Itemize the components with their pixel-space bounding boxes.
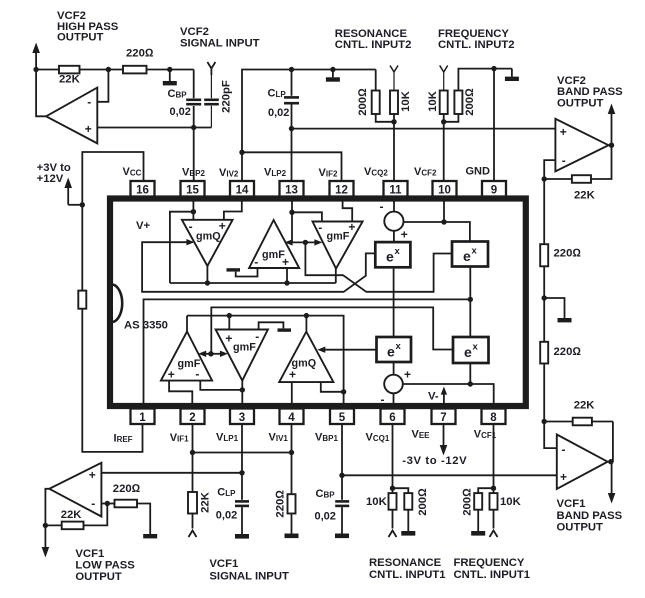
wire A2 feedback: [591, 145, 612, 179]
svg-text:220Ω: 220Ω: [554, 346, 582, 358]
pin boxes bottom row 1..8: [131, 409, 506, 425]
svg-text:13: 13: [285, 185, 298, 197]
svg-text:16: 16: [136, 185, 149, 197]
ground bar top-left: [163, 70, 177, 86]
svg-text:+: +: [560, 125, 567, 139]
node LP2 branch: [303, 240, 308, 245]
resistor 10K freq2: [427, 90, 448, 121]
svg-text:-3V to -12V: -3V to -12V: [402, 455, 467, 467]
wire pin8 chain: [493, 424, 495, 493]
svg-text:CLP: CLP: [217, 487, 236, 499]
svg-text:+: +: [404, 368, 411, 382]
wire pin2 chain: [192, 424, 194, 492]
node pin3 VLP1 internal: [240, 387, 245, 392]
node gmQ bottom output: [304, 313, 309, 318]
svg-text:+: +: [225, 332, 232, 346]
svg-text:200Ω: 200Ω: [357, 88, 369, 116]
node Hb to gmF plus: [227, 313, 232, 318]
arrow VEE supply: [440, 424, 448, 456]
input terminal Y VCF1 signal: [189, 531, 197, 538]
node A2 output: [609, 143, 614, 148]
svg-text:200Ω: 200Ω: [462, 488, 474, 516]
svg-text:-: -: [255, 330, 259, 344]
node link at pin2: [190, 450, 195, 455]
wire A4 plus input LP1 line: [101, 472, 242, 474]
wire 22K to A2 minus: [544, 178, 572, 180]
svg-text:OUTPUT: OUTPUT: [557, 97, 604, 109]
resistor 200R freq2: [444, 69, 512, 122]
wire gmF bottom-left plus to pin2: [169, 381, 192, 406]
svg-text:CNTL. INPUT2: CNTL. INPUT2: [438, 39, 515, 51]
capacitor CBP 0,02 bottom: [315, 488, 350, 522]
svg-text:LOW PASS: LOW PASS: [75, 560, 135, 572]
node BP1 at pin5: [339, 473, 344, 478]
svg-text:CLP: CLP: [268, 88, 287, 100]
wire IREF to pin1: [82, 309, 142, 452]
resistor 220R A4: [113, 483, 150, 534]
node pin15 junction: [191, 209, 196, 214]
wire top-left feedback rail: [36, 69, 194, 71]
wire current source bottom to pin6: [393, 393, 395, 406]
op-amp A2 VCF2 band pass: [555, 119, 608, 172]
resistor 220R top-left: [123, 66, 147, 74]
resistor IREF (unlabeled): [78, 291, 86, 309]
svg-text:VIF2: VIF2: [319, 167, 338, 179]
node ex2-ex4 on bus3: [468, 297, 473, 302]
resistor 200R res1: [393, 488, 429, 531]
wire pin14 to gmQ plus: [224, 198, 242, 220]
wire pin11 to current source top: [393, 198, 395, 212]
op-amp A4 VCF1 low pass: [49, 463, 101, 517]
wire gmQ bottom output stub: [305, 316, 307, 332]
svg-text:+12V: +12V: [37, 173, 64, 185]
svg-text:x: x: [472, 246, 478, 257]
wire Hb to gmF bottom-center plus: [228, 316, 230, 330]
exponential converter ex3: [377, 337, 412, 362]
svg-text:RESONANCE: RESONANCE: [369, 557, 442, 569]
svg-text:4: 4: [288, 412, 295, 424]
wire pin9 to gnd: [493, 69, 495, 181]
svg-text:CNTL. INPUT2: CNTL. INPUT2: [335, 39, 412, 51]
node mid ground: [542, 295, 547, 300]
wire A2 minus input: [544, 160, 555, 179]
pin boxes top row 16..9: [131, 181, 507, 197]
wire V- rail: [403, 384, 494, 406]
wire arrow into gmF bottom-left input: [205, 353, 211, 355]
node frequency1 split: [491, 486, 496, 491]
wire ex2 bottom to ex4 top: [469, 267, 471, 338]
text +3V to +12V: [37, 162, 71, 185]
IC pin-1 notch: [113, 285, 122, 323]
svg-text:200Ω: 200Ω: [417, 488, 429, 516]
svg-text:VCF2: VCF2: [414, 166, 437, 178]
resistor 10K freq1: [490, 493, 522, 528]
wire pin10 to current source right: [403, 221, 444, 223]
text VCF1 LOW PASS OUTPUT: [75, 548, 135, 583]
svg-text:-: -: [87, 95, 91, 109]
wire pin10 to ex2 top: [444, 222, 470, 242]
wire to pin11: [393, 122, 395, 181]
svg-text:VLP1: VLP1: [216, 432, 239, 444]
resistor 220R VIV1: [275, 490, 296, 534]
svg-text:0,02: 0,02: [268, 107, 289, 119]
node BP2 external: [191, 125, 196, 130]
svg-text:220Ω: 220Ω: [126, 47, 154, 59]
arrow VCF2 high pass output: [35, 52, 37, 70]
text VCF1 BAND PASS OUTPUT: [557, 498, 623, 534]
wire VIV2 top rail: [242, 70, 376, 153]
node CLP top: [289, 67, 294, 72]
svg-text:-: -: [381, 393, 385, 407]
wire bus2 with arrow into gmQ input: [142, 242, 375, 292]
node A1 output: [33, 67, 38, 72]
ground bar res1: [401, 531, 415, 536]
svg-text:+: +: [168, 368, 175, 382]
ground bar freq1: [471, 531, 485, 536]
arrow +12V supply: [64, 178, 82, 205]
wire pin6 chain: [392, 424, 394, 493]
wire BP1 line to A3 plus: [342, 474, 557, 476]
wire pin4 chain: [291, 424, 293, 494]
arrow VCF1 low pass output: [42, 525, 50, 557]
svg-text:VCF1: VCF1: [557, 498, 586, 510]
exponential converter ex2: [452, 242, 488, 267]
ground bar A4: [143, 534, 157, 538]
svg-text:+: +: [560, 470, 567, 484]
svg-text:gmQ: gmQ: [196, 231, 221, 243]
op-amp gmF bottom-left (U1 internal): [161, 332, 212, 382]
node ground tap: [167, 67, 172, 72]
node ground tap 2: [330, 67, 335, 72]
capacitor CLP 0,02 top: [268, 88, 300, 120]
svg-text:+: +: [348, 220, 355, 234]
svg-text:10K: 10K: [400, 90, 412, 112]
wire ex3 bottom to current source: [393, 362, 395, 375]
node VIV2 link: [239, 150, 244, 155]
svg-text:-: -: [380, 200, 384, 214]
svg-text:12: 12: [335, 185, 348, 197]
wire gmF top-right output stub: [335, 269, 337, 283]
resistor 22K input VCF1: [188, 491, 211, 528]
svg-text:5: 5: [339, 412, 346, 424]
node pin9 gnd: [491, 66, 496, 71]
input terminal Y resonance1: [389, 531, 397, 538]
node pin13 junction: [289, 210, 294, 215]
wire VIV2 to VIF2 link: [242, 152, 342, 181]
resistor 200R res2: [357, 70, 394, 122]
op-amp gmQ top (U1 internal): [182, 219, 233, 266]
ground bar CBP: [335, 534, 349, 539]
svg-text:VIF1: VIF1: [170, 432, 189, 444]
resistor 22K feedback A1: [59, 66, 80, 74]
op-amp gmF bottom-center (U1 internal): [216, 330, 268, 381]
wire pin5 chain: [341, 424, 343, 500]
wire ex1 bottom to ex3 top: [393, 267, 395, 337]
svg-text:VEE: VEE: [412, 429, 431, 441]
exponential converter ex4: [453, 337, 489, 363]
ground bar top-right: [505, 69, 519, 81]
wire gmF top-center plus stub: [286, 268, 288, 283]
svg-text:220Ω: 220Ω: [554, 248, 582, 260]
svg-text:22K: 22K: [574, 399, 596, 411]
wire gmQ bottom feedback loop: [306, 316, 343, 392]
op-amp A3 VCF1 band pass: [557, 435, 608, 489]
svg-text:BAND PASS: BAND PASS: [557, 86, 623, 98]
text RESONANCE CNTL. INPUT2: [335, 28, 412, 51]
wire gmQ output stub: [206, 266, 208, 283]
svg-text:SIGNAL INPUT: SIGNAL INPUT: [209, 570, 289, 582]
svg-text:220Ω: 220Ω: [113, 483, 141, 495]
svg-text:22K: 22K: [59, 74, 81, 86]
svg-text:-: -: [195, 367, 199, 381]
wire pin12 to gmF top-right plus: [343, 198, 353, 222]
svg-text:CNTL. INPUT1: CNTL. INPUT1: [369, 569, 446, 581]
svg-text:-: -: [189, 220, 193, 234]
op-amp A1 VCF2 high pass: [46, 88, 97, 144]
svg-text:OUTPUT: OUTPUT: [57, 31, 104, 43]
svg-text:BAND PASS: BAND PASS: [557, 510, 623, 522]
svg-text:+: +: [89, 468, 96, 482]
wire CLP to ground: [241, 507, 243, 534]
svg-text:VLP2: VLP2: [264, 167, 287, 179]
node link at pin4: [289, 450, 294, 455]
text VCF1 SIGNAL INPUT: [209, 558, 289, 583]
node supply junction: [80, 202, 85, 207]
wire A4 output to apex: [45, 489, 49, 526]
wire VIF1 to VIV1 link: [193, 452, 292, 454]
IC U1 AS3350 body: [110, 199, 526, 407]
wire CBP branch down to pin15: [193, 70, 195, 99]
svg-text:220Ω: 220Ω: [275, 490, 287, 518]
svg-text:22K: 22K: [61, 509, 83, 521]
svg-text:9: 9: [491, 185, 497, 197]
svg-text:CBP: CBP: [316, 488, 336, 500]
resistor 10K res2: [390, 90, 412, 121]
svg-text:GND: GND: [466, 166, 491, 178]
svg-text:14: 14: [236, 185, 249, 197]
wire pin14 stub: [241, 152, 243, 181]
wire feedback node to pin5: [343, 392, 345, 406]
svg-text:22K: 22K: [574, 189, 596, 201]
text VCF2 HIGH PASS OUTPUT: [57, 10, 119, 43]
svg-text:-: -: [562, 154, 566, 168]
wire bus1 BP2 node: [170, 282, 336, 284]
wire arrow into gmF top-center input: [290, 241, 292, 243]
svg-text:VCQ2: VCQ2: [364, 166, 388, 178]
resistor 200R freq1: [462, 488, 494, 531]
exponential converter ex1: [375, 242, 410, 267]
svg-text:0,02: 0,02: [170, 106, 191, 118]
svg-text:e: e: [464, 344, 472, 360]
svg-text:VIV1: VIV1: [269, 432, 289, 444]
capacitor CBP 0,02: [168, 88, 202, 118]
resistor 22K A2 feedback: [572, 175, 591, 183]
wire CLP to pin13: [291, 70, 293, 96]
current source circle bottom: [381, 368, 412, 407]
op-amp gmF top-right (U1 internal): [313, 220, 363, 269]
arrow VCF1 band pass output: [608, 462, 616, 504]
svg-text:OUTPUT: OUTPUT: [75, 571, 122, 583]
node gmF plus on bus1: [284, 280, 289, 285]
wire gmF bottom-left minus to pin3 node: [200, 381, 242, 390]
svg-text:200Ω: 200Ω: [464, 88, 476, 116]
wire gmF bottom-left output stub: [186, 316, 188, 332]
svg-text:-: -: [562, 443, 566, 457]
wire A3 feedback down: [612, 422, 614, 462]
wire A3 minus input: [544, 422, 557, 449]
svg-text:VCF2: VCF2: [557, 75, 586, 87]
wire ex3 input arrow into gmQ: [324, 349, 377, 351]
wire A4 minus input: [101, 503, 114, 505]
node LP1 at pin3: [239, 470, 244, 475]
input terminal Y VCF2 signal: [207, 62, 215, 75]
svg-text:FREQUENCY: FREQUENCY: [454, 557, 525, 569]
resistor 220R right-2: [540, 342, 548, 364]
wire chain middle: [543, 266, 545, 342]
node resonance1 split: [390, 486, 395, 491]
svg-text:VCF2: VCF2: [180, 26, 209, 38]
svg-text:7: 7: [440, 412, 446, 424]
node feedback to pin5: [341, 389, 346, 394]
svg-text:0,02: 0,02: [216, 509, 237, 521]
input terminal Y resonance2: [390, 66, 398, 91]
wire bus3 to pin1 IREF: [144, 299, 471, 406]
svg-text:gmF: gmF: [327, 231, 350, 243]
wire current source to ex1: [393, 231, 395, 242]
wire A1 output node: [36, 70, 46, 117]
svg-text:+: +: [289, 368, 296, 382]
svg-text:AS 3350: AS 3350: [124, 320, 168, 332]
node 22K to minus: [106, 67, 111, 72]
wire pin13 entry: [291, 198, 293, 242]
capacitor CLP 0,02 bottom: [216, 487, 249, 522]
wire pin3 chain: [241, 424, 243, 500]
svg-text:+: +: [282, 255, 289, 269]
svg-text:V+: V+: [136, 220, 151, 232]
wire pin10 entry: [443, 198, 445, 222]
svg-text:CNTL. INPUT1: CNTL. INPUT1: [454, 569, 531, 581]
svg-text:x: x: [473, 342, 479, 353]
arrow VCF2 band pass output: [608, 104, 616, 146]
node pin10 junction: [441, 219, 446, 224]
svg-text:+: +: [401, 228, 408, 242]
svg-text:e: e: [386, 249, 394, 265]
svg-text:gmF: gmF: [233, 342, 256, 354]
text VCF2 BAND PASS OUTPUT: [557, 75, 623, 109]
svg-text:10: 10: [438, 185, 451, 197]
svg-text:11: 11: [389, 185, 402, 197]
input terminal Y frequency2: [440, 66, 448, 91]
wire CBP to ground: [341, 507, 343, 533]
wire arrow into gmF top-right input: [292, 241, 316, 243]
wire pin15 to gmQ minus: [192, 198, 194, 220]
wire A1 minus input: [97, 70, 108, 102]
svg-text:10K: 10K: [427, 90, 439, 112]
svg-text:10K: 10K: [366, 496, 388, 508]
wire chain bottom: [543, 364, 545, 422]
svg-text:x: x: [396, 341, 402, 352]
svg-text:e: e: [387, 344, 395, 360]
ground bar CLP: [235, 534, 249, 539]
svg-text:IREF: IREF: [114, 433, 133, 445]
text FREQUENCY CNTL. INPUT2: [438, 28, 515, 51]
node A3 minus junction: [542, 419, 547, 424]
node A2 minus junction: [542, 176, 547, 181]
node double arrow junction: [208, 351, 213, 356]
input terminal Y frequency1: [490, 531, 498, 538]
op-amp gmF top-center (U1 internal): [249, 220, 299, 269]
svg-text:6: 6: [389, 412, 395, 424]
ground bar top-middle: [326, 70, 340, 82]
node resonance2 to pin11: [391, 119, 396, 124]
svg-text:2: 2: [189, 412, 195, 424]
node A4 minus junction: [105, 501, 110, 506]
wire gmF bottom-center output to pin3: [241, 381, 243, 406]
svg-text:+3V to: +3V to: [37, 162, 71, 174]
text FREQUENCY CNTL. INPUT1: [454, 557, 531, 581]
node LP2 external: [289, 126, 294, 131]
svg-text:VCQ1: VCQ1: [366, 432, 390, 444]
svg-text:22K: 22K: [199, 491, 211, 513]
node gmQ output on bus1: [205, 280, 210, 285]
wire pin15 feedback to bus1: [170, 212, 194, 283]
svg-text:+: +: [219, 219, 226, 233]
svg-text:x: x: [395, 246, 401, 257]
ground bar VIV1: [285, 534, 299, 539]
svg-text:-: -: [318, 221, 322, 235]
node ex4 on V- rail: [468, 381, 473, 386]
resistor 22K A3 feedback: [544, 399, 613, 425]
resistor 10K res1: [366, 493, 397, 528]
reference bar bottom gm block: [259, 322, 291, 332]
wire pin13 to gmF top-right minus: [292, 212, 322, 221]
wire arrow into gmF bottom-center input: [211, 353, 222, 355]
text RESONANCE CNTL. INPUT1: [369, 557, 446, 581]
wire VCC to pin16: [82, 152, 143, 291]
arrow pin7 VEE to V- rail: [443, 393, 445, 404]
wire A1 plus input BP2 line: [97, 127, 211, 129]
svg-text:15: 15: [186, 185, 199, 197]
svg-text:VCF1: VCF1: [209, 558, 238, 570]
svg-text:SIGNAL INPUT: SIGNAL INPUT: [180, 37, 260, 49]
svg-text:VCF1: VCF1: [75, 548, 104, 560]
svg-text:1: 1: [139, 412, 146, 424]
reference bar top gm block: [227, 268, 258, 277]
svg-text:VIV2: VIV2: [219, 167, 239, 179]
wire LP2 internal to ex2 input: [305, 242, 452, 291]
wire Hb bus: [187, 315, 306, 317]
wire LP2 line to A2 plus: [292, 128, 556, 130]
svg-text:0,02: 0,02: [315, 511, 336, 523]
wire 220pF branch: [210, 75, 212, 98]
resistor 220R right-1: [540, 244, 548, 266]
node freq2 to pin10: [441, 119, 446, 124]
node A4 output: [43, 523, 48, 528]
wire to pin10: [443, 122, 445, 181]
svg-text:-: -: [91, 497, 95, 511]
node A3 output: [608, 459, 613, 464]
svg-text:-: -: [254, 255, 258, 269]
text VCF2 SIGNAL INPUT: [180, 26, 260, 49]
wire ex4 bottom to V- rail: [469, 363, 471, 384]
svg-text:VCC: VCC: [123, 166, 142, 178]
capacitor 220pF: [204, 80, 232, 113]
svg-text:220pF: 220pF: [221, 80, 233, 113]
wire Ha to ex4 input: [211, 307, 453, 353]
resistor 22K A4 feedback: [45, 504, 107, 530]
current source circle top: [380, 200, 408, 242]
svg-text:3: 3: [239, 412, 245, 424]
